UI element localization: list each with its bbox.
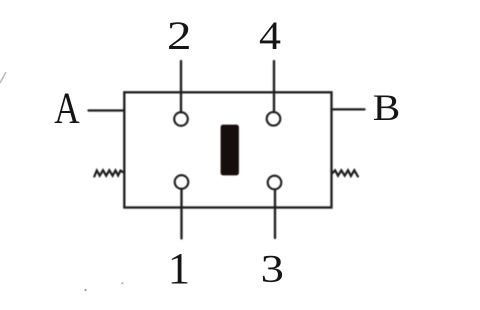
wire pin 3 <box>274 190 276 239</box>
spring contact right <box>332 170 358 176</box>
wire pin 4 <box>273 61 275 112</box>
svg-text:2: 2 <box>167 13 192 58</box>
terminal circle pin 2 <box>174 112 188 126</box>
spring contact left <box>94 170 123 176</box>
wire pin 2 <box>180 61 182 112</box>
svg-text:A: A <box>54 83 79 133</box>
switch slider (dark) <box>221 125 239 176</box>
wire pin 1 <box>180 189 182 239</box>
terminal circle pin 1 <box>175 175 189 189</box>
terminal B wire <box>332 108 365 110</box>
terminal circle pin 4 <box>267 112 281 126</box>
scan speck <box>84 289 86 291</box>
terminal circle pin 3 <box>268 176 282 190</box>
device body box <box>124 92 331 207</box>
terminal A wire <box>89 109 125 111</box>
svg-text:3: 3 <box>261 248 284 291</box>
svg-text:4: 4 <box>259 15 281 59</box>
svg-text:B: B <box>373 87 401 129</box>
scan artifact left edge <box>0 72 6 83</box>
scan speck <box>121 282 123 284</box>
svg-text:1: 1 <box>168 244 190 294</box>
